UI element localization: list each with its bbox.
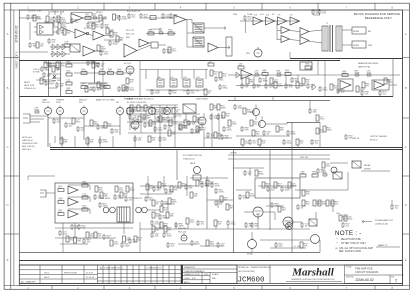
resistor R158 (186, 218, 195, 224)
capacitor C30a (40, 66, 50, 72)
svg-text:FOOTSWITCH PCB: FOOTSWITCH PCB (183, 155, 202, 157)
svg-text:*: * (337, 237, 338, 241)
label fx return (84, 28, 92, 30)
capacitor C55 (284, 83, 293, 89)
left strip drawing number (rotated) (15, 25, 19, 43)
capacitor C65 (110, 128, 119, 134)
resistor R132 (204, 89, 212, 95)
svg-text:10K: 10K (322, 13, 326, 15)
op-amp IC1B (75, 29, 89, 38)
svg-text:C28 R111 C29: C28 R111 C29 (50, 12, 65, 14)
resistor R83 (82, 182, 88, 187)
svg-text:22K: 22K (103, 19, 107, 21)
capacitor C68 (156, 116, 166, 122)
svg-text:SPKR: SPKR (353, 31, 359, 33)
resistor R55 (296, 82, 304, 88)
label +16V/0V/-16V supply rail (28, 11, 42, 13)
wire chain drop (245, 21, 247, 33)
resistor R127 (168, 30, 174, 35)
svg-text:(3): (3) (335, 248, 338, 250)
svg-text:47K: 47K (306, 194, 310, 196)
resistor R98 (288, 182, 297, 188)
resistor R151 (178, 182, 186, 188)
svg-text:1M: 1M (58, 188, 61, 190)
resistor R69 (210, 104, 218, 110)
svg-text:RELAYS MUST BE: RELAYS MUST BE (341, 238, 361, 241)
wire e net2 (207, 200, 233, 208)
svg-text:B: B (405, 86, 407, 90)
svg-text:470K: 470K (219, 192, 225, 194)
border left fold strip line (11, 3, 14, 289)
label input stage (24, 82, 36, 90)
svg-text:68K: 68K (250, 82, 254, 84)
wire IC1 output (83, 17, 98, 19)
wire ht wire (260, 240, 320, 253)
svg-text:68K: 68K (317, 204, 321, 206)
resistor R146 (241, 139, 250, 145)
svg-text:100K: 100K (122, 19, 128, 21)
capacitor C153 (238, 194, 248, 200)
capacitor C162 (274, 242, 283, 248)
border top zone line (4, 9, 409, 11)
resistor R14 (58, 23, 67, 29)
capacitor C146 (282, 139, 292, 145)
wire hp rail (330, 74, 400, 76)
resistor R180 (152, 200, 160, 206)
resistor R106 (344, 215, 353, 221)
resistor R35 (99, 69, 105, 74)
connector footswitch jack (23, 114, 30, 123)
wire v3 net (244, 212, 302, 222)
svg-text:SWITCHING: SWITCHING (196, 99, 208, 101)
connector phono send B (110, 207, 116, 213)
logo block divider (269, 265, 271, 284)
svg-text:47K: 47K (82, 208, 86, 210)
reverb tank (117, 207, 130, 222)
capacitor C53 (252, 83, 261, 89)
capacitor C149 (243, 170, 252, 176)
svg-text:MODEL No: MODEL No (239, 267, 250, 269)
resistor R182 (66, 236, 74, 242)
capacitor C143 (262, 130, 271, 136)
border zone tick marks (52, 3, 375, 289)
resistor R84 (82, 194, 88, 199)
svg-text:100n: 100n (274, 82, 280, 84)
capacitor C86 (200, 182, 209, 188)
svg-text:R7 68K: R7 68K (33, 72, 40, 74)
wire bb top (44, 62, 100, 64)
wire c mid h1 (127, 113, 200, 115)
svg-text:33K: 33K (138, 140, 142, 142)
wire top-left feed (20, 18, 49, 52)
capacitor C59 (360, 90, 369, 96)
speaker jack box 1 (352, 27, 366, 34)
wire IC2A out (104, 35, 112, 37)
capacitor C101 (250, 222, 259, 228)
capacitor C67 (142, 114, 151, 120)
svg-text:100K: 100K (82, 184, 88, 186)
label input jack top (33, 69, 41, 74)
capacitor C60 (34, 107, 40, 114)
resistor R101 (313, 200, 321, 206)
capacitor C148 (316, 168, 325, 174)
svg-text:470K: 470K (103, 142, 109, 144)
svg-text:330K: 330K (354, 73, 360, 75)
resistor R62 (104, 122, 112, 128)
svg-text:47K: 47K (174, 190, 178, 192)
svg-text:1M: 1M (66, 73, 69, 75)
wire to speakers (342, 30, 352, 45)
resistor R67 (162, 108, 170, 114)
capacitor C70 (209, 114, 219, 120)
svg-text:330K: 330K (172, 202, 178, 204)
capacitor C168 (131, 118, 141, 124)
svg-text:NOTE : -: NOTE : - (335, 230, 361, 237)
titleblock mid outline (182, 265, 237, 284)
label pi (296, 22, 299, 24)
svg-text:47K: 47K (108, 71, 112, 73)
resistor R91 (152, 212, 160, 218)
wire bias net (258, 185, 296, 187)
resistor R114 (164, 226, 172, 232)
resistor R176 (214, 132, 223, 138)
svg-text:SPKR: SPKR (353, 45, 359, 47)
svg-text:330K: 330K (263, 81, 269, 83)
resistor R95 (206, 180, 214, 186)
wire main bus Y61 (20, 60, 341, 62)
resistor R93 (166, 212, 174, 218)
capacitor C91 (341, 222, 350, 228)
rect reverb box (55, 183, 133, 223)
capacitor C158 (226, 220, 236, 226)
rect voltage reg (300, 62, 312, 70)
resistor R90 (126, 186, 135, 192)
resistor R52 (285, 70, 291, 75)
svg-text:820p: 820p (90, 236, 96, 238)
valve V4 (283, 217, 293, 229)
svg-text:12.11.96: 12.11.96 (192, 274, 201, 276)
capacitor C126b (318, 9, 327, 15)
svg-text:47K: 47K (245, 130, 249, 132)
resistor R161 (110, 240, 119, 246)
transistor TR3 (331, 167, 337, 173)
capacitor C147 (310, 139, 319, 145)
pot VR1 gain (45, 106, 52, 115)
resistor R87 (100, 192, 108, 198)
label footswitch (183, 155, 202, 161)
label fx row (62, 12, 104, 25)
wire grid rail (295, 172, 348, 190)
svg-text:820p: 820p (130, 190, 136, 192)
label fs jack (190, 162, 196, 165)
svg-text:33K: 33K (313, 112, 317, 114)
capacitor C145 (248, 139, 257, 145)
capacitor C135 (336, 88, 345, 94)
svg-text:470n: 470n (155, 224, 161, 226)
resistor R136 (330, 84, 338, 90)
label block diagram note (354, 12, 400, 20)
label MODEL (239, 267, 272, 273)
svg-text:JCM6-60-02: JCM6-60-02 (15, 25, 19, 43)
pot VR6 contour (149, 106, 156, 115)
transformer T1 core (330, 25, 333, 52)
resistor R164 (33, 15, 42, 21)
op-amp IC2B (83, 46, 95, 56)
svg-text:10K: 10K (211, 136, 215, 138)
label JCM600 (238, 276, 266, 284)
svg-text:C41: C41 (170, 77, 173, 79)
capacitor C71 (216, 114, 225, 120)
svg-text:680p: 680p (259, 174, 265, 176)
op-amp IC5A (241, 70, 252, 79)
wire channel bus (228, 154, 330, 156)
titleblock model divider (236, 265, 238, 284)
wire c drops2 (141, 113, 186, 133)
svg-text:*: * (337, 241, 338, 245)
resistor R120 (46, 16, 54, 22)
capacitor C179 (144, 196, 153, 202)
label jcm note (370, 135, 387, 142)
svg-text:1M: 1M (225, 138, 228, 140)
wire input net (49, 74, 61, 88)
resistor R54 (274, 82, 283, 88)
border bottom zone line (4, 285, 409, 287)
svg-text:100n: 100n (190, 222, 196, 224)
capacitor C57 (354, 70, 360, 77)
svg-text:DRIVE: DRIVE (364, 169, 371, 171)
svg-text:DENBIGH RD, BLETCHLEY, MILTON: DENBIGH RD, BLETCHLEY, MILTON KEYNES MK1… (291, 279, 335, 281)
capacitor C58 (366, 70, 372, 77)
wire fx feed (44, 22, 66, 26)
label speaker impedance (368, 31, 372, 47)
resistor R140 (168, 130, 176, 136)
label mid header2 (127, 102, 147, 104)
wire drops to bus (160, 217, 288, 229)
op-amp IC6 box (338, 79, 353, 91)
titleblock mid grid (182, 269, 237, 284)
svg-text:22K: 22K (219, 204, 223, 206)
resistor R64 (137, 105, 146, 111)
svg-text:RV2 22K: RV2 22K (178, 232, 187, 234)
border right zone line (402, 10, 404, 286)
svg-text:470n: 470n (76, 122, 82, 124)
op-amp IC4B (124, 44, 137, 57)
svg-text:820p: 820p (238, 108, 244, 110)
resistor R56 (342, 71, 348, 76)
wire foot drop (176, 150, 178, 181)
wire bb1 (88, 83, 100, 85)
pot VR4 bass (117, 106, 124, 115)
svg-text:R8 4K7: R8 4K7 (96, 12, 104, 14)
titleblock title text (355, 267, 378, 275)
wire between IC1B IC2A (86, 34, 93, 36)
svg-text:100K: 100K (81, 71, 87, 73)
capacitor C125 (158, 28, 164, 35)
svg-text:27.3.97: 27.3.97 (86, 273, 94, 275)
wire top right bits (313, 9, 320, 15)
logo underline (286, 280, 342, 282)
wire bandB mid2 (236, 85, 306, 87)
wire mid links (150, 105, 178, 147)
table bottom strip bottom line (19, 283, 402, 285)
wire c mid h3 (204, 137, 232, 139)
capacitor C63 (76, 126, 85, 132)
capacitor C4 (139, 13, 148, 19)
label amp blocks (254, 15, 293, 17)
capacitor C122 (108, 40, 118, 46)
svg-text:470K: 470K (215, 186, 221, 188)
amp block D (290, 17, 300, 25)
wire e mid h (140, 186, 176, 194)
svg-text:D: D (6, 203, 8, 207)
wire phase vertical (206, 176, 208, 229)
label note bullets (335, 237, 338, 250)
resistor R145 (276, 126, 284, 132)
amp block A (253, 17, 263, 25)
label NOTE heading (335, 230, 361, 237)
resistor R124 (116, 36, 124, 42)
svg-text:C36, ALL OPT-C18 & DUAL AMP: C36, ALL OPT-C18 & DUAL AMP (339, 247, 373, 250)
capacitor C121 (86, 22, 96, 28)
resistor R104 (331, 200, 339, 206)
resistor R73 (250, 120, 258, 126)
capacitor C160 (166, 242, 175, 248)
svg-text:470K: 470K (141, 109, 147, 111)
svg-text:330K: 330K (322, 204, 328, 206)
label notes block (22, 136, 38, 151)
capacitor C56 (306, 83, 315, 89)
resistor R16 (106, 28, 114, 34)
svg-text:330K: 330K (179, 226, 185, 228)
resistor R60 (72, 118, 81, 124)
pot bias trimmer (181, 233, 187, 241)
wire tl drop (29, 22, 31, 40)
capacitor C138 (158, 136, 167, 142)
svg-text:820p: 820p (287, 143, 293, 145)
resistor R154 (226, 204, 234, 210)
diodes D1-D6 (52, 44, 66, 57)
titleblock drg label (346, 277, 355, 279)
capacitor coupling C42 (183, 77, 190, 93)
svg-text:15K: 15K (57, 80, 61, 82)
resistor R167 (56, 62, 65, 68)
capacitor C173 (187, 120, 196, 126)
resistor R36 (81, 83, 87, 88)
connector SK1 box (37, 23, 53, 35)
capacitor C142 (240, 126, 249, 132)
svg-text:68K: 68K (342, 73, 346, 75)
wire tr4 net (251, 232, 253, 253)
wire pot drops (48, 115, 130, 148)
capacitor C174 (197, 126, 206, 132)
capacitor C99 (190, 240, 200, 246)
wire SK1 leads (34, 27, 58, 32)
svg-text:R22 C22: R22 C22 (126, 34, 135, 36)
wire rail drop (235, 97, 273, 101)
svg-text:680p: 680p (210, 244, 216, 246)
border zone letters (4, 32, 409, 262)
svg-text:MILTON KEYNES: MILTON KEYNES (239, 271, 256, 273)
svg-text:15K: 15K (152, 140, 156, 142)
resistor R35c (117, 69, 123, 74)
svg-text:820p: 820p (158, 130, 164, 132)
wire to transformer (308, 30, 322, 43)
svg-text:10K: 10K (254, 73, 258, 75)
svg-text:56K: 56K (189, 188, 193, 190)
pot VR7 master (164, 106, 171, 115)
wire e bottom drops (176, 222, 228, 229)
resistor R178 (158, 182, 167, 188)
resistor R34 (81, 69, 87, 74)
resistor R110 (74, 237, 82, 243)
amp output F (300, 37, 309, 45)
border drawing area bottom line (19, 260, 402, 262)
svg-text:R.S.: R.S. (192, 278, 196, 280)
label bias (178, 227, 187, 234)
resistor R135 (302, 78, 310, 84)
capacitor C64 (96, 124, 105, 130)
table revision text (21, 273, 95, 284)
resistor R134 (270, 78, 279, 84)
wire drop x320 (310, 101, 320, 148)
wire note right link (376, 244, 400, 247)
wire input stubs (49, 66, 61, 80)
svg-text:15K: 15K (304, 246, 308, 248)
connector HT (286, 223, 293, 230)
resistor R122 (92, 23, 100, 29)
svg-text:470n: 470n (300, 174, 306, 176)
resistor R61 (90, 120, 99, 126)
wire c mid rail2 (128, 132, 200, 134)
svg-text:ISS 1: ISS 1 (44, 273, 50, 275)
resistor R143 (228, 120, 237, 126)
wire relay out (361, 170, 390, 172)
relay RL3 box (352, 161, 361, 168)
amp block C (278, 17, 288, 25)
wire bias net2 (178, 243, 196, 245)
svg-text:CHARLES BRAMALD: CHARLES BRAMALD (184, 270, 205, 273)
svg-text:100K: 100K (156, 112, 162, 114)
capacitor C73 (308, 108, 317, 114)
capacitor C137 (133, 136, 142, 142)
svg-text:220K: 220K (250, 196, 256, 198)
resistor R173 (169, 120, 178, 126)
svg-text:2: 2 (395, 279, 397, 283)
wire pa link (391, 200, 393, 206)
svg-text:470n: 470n (64, 44, 70, 46)
svg-text:FX RTN: FX RTN (84, 28, 92, 30)
svg-text:470n: 470n (320, 119, 326, 121)
capacitor C51 (276, 70, 282, 77)
pot VR2 treble (57, 106, 64, 115)
resistor R86 (95, 186, 103, 192)
capacitor C34 (99, 84, 108, 90)
svg-text:33K: 33K (170, 216, 174, 218)
capacitor C98 (162, 232, 172, 238)
resistor R162 (206, 240, 215, 246)
resistor R102 (318, 200, 327, 206)
svg-text:820p: 820p (348, 219, 354, 221)
wire c x right (236, 135, 290, 137)
transistor TR4 (248, 240, 257, 249)
resistor R23 (151, 42, 158, 48)
wire rl2 net (330, 162, 348, 164)
resistor R12 (85, 14, 91, 19)
svg-text:10K: 10K (60, 86, 64, 88)
label cluster mix (126, 30, 135, 39)
resistor R141 (184, 120, 192, 126)
svg-text:8R: 8R (368, 31, 371, 33)
